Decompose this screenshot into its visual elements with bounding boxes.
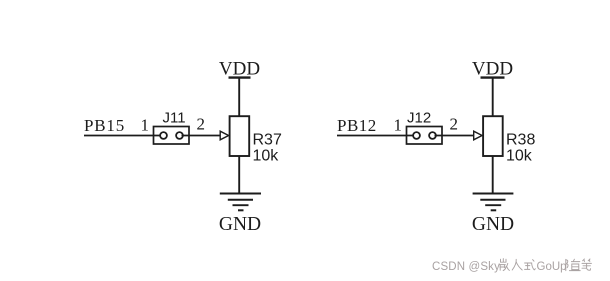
svg-text:PB15: PB15 xyxy=(84,116,125,135)
glyph 笔 xyxy=(582,259,591,270)
ground symbol (right) xyxy=(473,194,514,211)
wire VDD to R38 xyxy=(492,78,494,116)
glyph 嵌 xyxy=(499,259,509,271)
svg-text:2: 2 xyxy=(197,115,206,134)
svg-text:R37: R37 xyxy=(253,132,282,149)
svg-text:10k: 10k xyxy=(506,148,533,165)
svg-text:GoUp: GoUp xyxy=(537,261,567,273)
wire R37 to ground xyxy=(238,156,240,194)
wiper arrow into R37 xyxy=(220,131,228,140)
power symbol VDD (left) xyxy=(219,59,260,80)
wire PB15 to J11 pin 1 xyxy=(84,135,162,137)
svg-text:J12: J12 xyxy=(407,110,431,127)
connector J12 xyxy=(407,127,443,145)
glyph 式 xyxy=(525,260,536,270)
svg-text:J11: J11 xyxy=(163,110,186,127)
resistor R38 xyxy=(483,116,503,156)
power symbol VDD (right) xyxy=(472,59,513,80)
wire VDD to R37 xyxy=(238,78,240,116)
svg-text:2: 2 xyxy=(450,115,459,134)
svg-text:R38: R38 xyxy=(506,132,535,149)
wire PB12 to J12 pin 1 xyxy=(337,135,415,137)
glyph 随 xyxy=(566,259,580,270)
watermark CSDN xyxy=(432,259,591,273)
svg-text:1: 1 xyxy=(394,116,403,135)
wiper arrow into R38 xyxy=(474,131,482,140)
wire J12 pin 2 to R38 wiper xyxy=(435,135,475,137)
connector J11 xyxy=(154,127,190,145)
svg-text:VDD: VDD xyxy=(219,59,260,80)
svg-text:GND: GND xyxy=(219,214,261,235)
svg-text:10k: 10k xyxy=(253,148,280,165)
ground symbol (left) xyxy=(220,194,261,211)
wire J11 pin 2 to R37 wiper xyxy=(182,135,221,137)
glyph 入 xyxy=(512,259,522,270)
wire R38 to ground xyxy=(492,156,494,194)
svg-text:1: 1 xyxy=(141,116,150,135)
svg-text:VDD: VDD xyxy=(472,59,513,80)
resistor R37 xyxy=(230,116,250,156)
svg-text:PB12: PB12 xyxy=(337,116,377,135)
svg-text:GND: GND xyxy=(472,214,514,235)
svg-text:CSDN @Sky: CSDN @Sky xyxy=(432,261,500,273)
